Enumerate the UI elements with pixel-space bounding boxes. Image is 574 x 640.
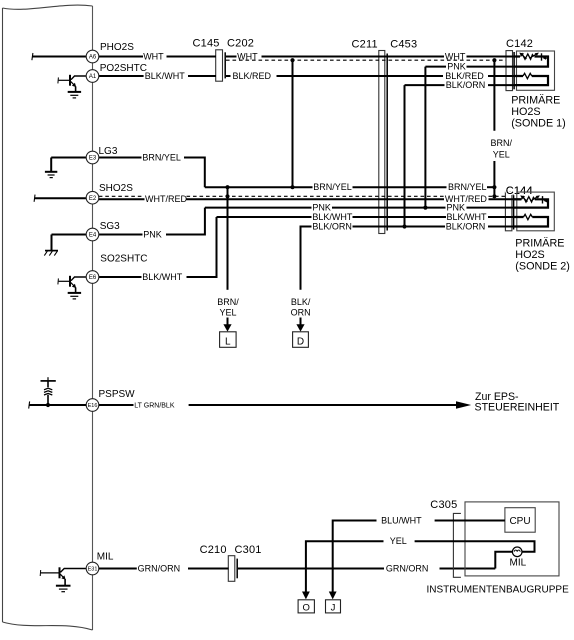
heater loop 1b (BLK/RED / BLK/ORN) — [514, 76, 548, 85]
sensing element cell bar (sonde 1) — [541, 53, 543, 60]
wire PNK from label to elbow up — [166, 208, 205, 235]
wire WHT/RED solid seg3 to sensor box 2 — [489, 198, 522, 200]
sensor box PRIMAERE HO2S (SONDE 2) outline — [517, 192, 555, 231]
wire BLK/WHT from A1 to label — [99, 75, 144, 77]
svg-text:O: O — [303, 602, 310, 613]
wire GRN/ORN after C301 to label2 — [238, 568, 384, 570]
connector C145/C202 body — [216, 50, 226, 81]
wire E2 left stub tick — [33, 195, 36, 202]
svg-text:E4: E4 — [89, 233, 97, 239]
terminal E6 (SO2SHTC) — [86, 271, 99, 284]
svg-text:A1: A1 — [89, 74, 97, 80]
svg-text:PNK: PNK — [447, 61, 466, 71]
svg-text:GRN/ORN: GRN/ORN — [386, 563, 429, 573]
svg-text:WHT/RED: WHT/RED — [145, 194, 187, 204]
svg-text:BLK/RED: BLK/RED — [233, 71, 272, 81]
svg-text:MIL: MIL — [510, 557, 527, 568]
sensing element arrow right (sonde 2) — [531, 197, 538, 201]
svg-text:PNK: PNK — [143, 229, 162, 239]
svg-text:BRN/: BRN/ — [217, 297, 239, 307]
svg-text:HO2S: HO2S — [511, 106, 540, 118]
arrowhead to J — [329, 592, 337, 600]
wire BLK/ORN top row to label — [405, 84, 445, 86]
svg-text:ORN: ORN — [291, 307, 311, 317]
svg-text:C453: C453 — [390, 39, 417, 51]
wire BLK/WHT lower row mid segment through C211 — [353, 216, 447, 218]
wire L-drain arrow shaft — [227, 318, 229, 327]
svg-text:GRN/ORN: GRN/ORN — [138, 563, 181, 573]
wire YEL label into cluster to MIL bulb — [415, 541, 535, 552]
power steering switch symbol (coil to bar) — [41, 377, 56, 405]
sensing element arrow left (sonde 2) — [523, 197, 528, 201]
node shield drain to BRN/YEL row — [290, 185, 294, 189]
wire L-drain vertical from BRN/YEL row — [227, 187, 229, 290]
node BLK/ORN vertical joins lower BLK/ORN row — [402, 224, 406, 228]
svg-text:L: L — [225, 337, 231, 348]
terminal E4 (SG3) — [86, 228, 99, 241]
wire BLK/WHT from E6 to label — [99, 276, 142, 278]
svg-text:BLU/WHT: BLU/WHT — [381, 515, 422, 525]
svg-text:YEL: YEL — [493, 150, 510, 160]
L-drain arrowhead — [223, 324, 231, 331]
svg-text:PO2SHTC: PO2SHTC — [100, 63, 147, 74]
wire WHT/RED shield dashed seg3 — [489, 195, 506, 197]
svg-text:PSPSW: PSPSW — [99, 389, 136, 400]
svg-text:BRN/: BRN/ — [491, 138, 513, 148]
arrowhead to EPS unit — [456, 401, 471, 409]
wire BLK/RED from label through C211 to label2 — [277, 75, 444, 77]
wire WHT from A6 to label — [99, 56, 143, 58]
svg-text:SHO2S: SHO2S — [99, 183, 133, 194]
wire D-drain arrow shaft — [300, 318, 302, 327]
wire BLK/WHT label to connector C145 — [188, 75, 216, 77]
wire E2 left stub — [35, 197, 87, 199]
heater resistor zigzag (sonde 1) — [523, 73, 532, 78]
terminal A1 (PO2SHTC) — [86, 70, 99, 83]
transistor Q2 (SO2SHTC driver at E6) — [58, 276, 86, 293]
connector C211/C453 body — [379, 51, 387, 234]
wire PNK lower row right segment to sensor box 2 — [467, 207, 514, 209]
instrument cluster box — [465, 502, 559, 576]
ECM left boundary line — [2, 8, 4, 622]
svg-text:E2: E2 — [89, 196, 97, 202]
svg-text:BRN/YEL: BRN/YEL — [313, 182, 352, 192]
sensing element arrow right (sonde 1) — [530, 54, 537, 58]
wire BLK/RED stub after C202 — [226, 75, 231, 77]
node shield drain junction at x494 — [492, 58, 496, 62]
ground symbol at E3 — [45, 158, 86, 178]
node box L — [220, 332, 237, 348]
wire LT GRN/BLK long run to EPS — [189, 404, 457, 406]
wire WHT/RED shield dashed seg1 — [99, 195, 144, 197]
CPU box — [505, 508, 535, 533]
arrowhead to O — [302, 592, 310, 600]
wire GRN/ORN label to connector C210 — [188, 568, 229, 570]
svg-text:C211: C211 — [352, 39, 378, 51]
node PNK vertical joins lower PNK row — [423, 206, 427, 210]
sensing element arrow left (sonde 1) — [522, 54, 527, 58]
svg-text:STEUEREINHEIT: STEUEREINHEIT — [475, 402, 560, 414]
wire WHT left stub tick at A6 — [32, 53, 33, 60]
sensor element loop 2a (WHT-RED/PNK) — [514, 199, 548, 207]
wire A6 left stub — [32, 56, 86, 58]
svg-text:J: J — [331, 602, 336, 613]
sensing element cell bar (sonde 2) — [542, 196, 544, 203]
terminal E16 (PSPSW) — [86, 399, 99, 412]
svg-text:YEL: YEL — [219, 307, 236, 317]
svg-text:BLK/ORN: BLK/ORN — [446, 221, 486, 231]
wire WHT/RED shield dashed seg2 — [187, 195, 445, 197]
svg-text:E6: E6 — [89, 275, 97, 281]
svg-text:BLK/WHT: BLK/WHT — [447, 212, 488, 222]
node box J — [326, 600, 341, 614]
svg-text:C145: C145 — [193, 37, 220, 49]
wire shield drain vertical x292 — [292, 60, 294, 187]
wire BLK/ORN lower row corner from D-drain — [301, 227, 312, 290]
heater resistor zigzag (sonde 2) — [524, 214, 533, 219]
svg-text:BLK/ORN: BLK/ORN — [312, 221, 352, 231]
wire WHT label to connector C145 — [167, 56, 217, 58]
ECM torn bottom edge — [3, 622, 93, 630]
svg-text:E3: E3 — [89, 156, 97, 162]
svg-text:D: D — [297, 337, 304, 348]
resistor zigzag sensing element (sonde 1) — [521, 54, 534, 59]
svg-text:PRIMÄRE: PRIMÄRE — [511, 95, 560, 107]
svg-text:YEL: YEL — [390, 536, 407, 546]
terminal E3 (LG3) — [86, 151, 99, 164]
wire PNK lower row left segment — [205, 207, 312, 209]
sensing element cell arrow (sonde 2) — [545, 200, 549, 202]
wire YEL corner down to O — [306, 541, 384, 592]
wire BRN/YEL from E3 to label — [99, 157, 142, 159]
wire BLK/WHT from label to elbow up — [187, 217, 217, 277]
wire BRN/YEL drain vertical lower part — [493, 161, 495, 196]
wire BLK/WHT lower row right segment to sensor box 2 — [488, 216, 524, 218]
node L-drain taps WHT/RED shield — [225, 194, 229, 198]
sensor box PRIMAERE HO2S (SONDE 1) outline — [517, 51, 555, 90]
connector C210/C301 body — [228, 556, 237, 582]
ECM right boundary line — [92, 6, 94, 630]
svg-text:C202: C202 — [227, 37, 254, 49]
wire LT GRN/BLK from E16 — [99, 404, 134, 406]
svg-text:C144: C144 — [506, 185, 533, 197]
svg-text:BRN/YEL: BRN/YEL — [448, 182, 487, 192]
wire BRN/YEL from label to elbow — [184, 158, 205, 188]
chassis ground symbol at E4 — [44, 235, 86, 256]
wire WHT/RED solid seg2 — [187, 198, 445, 200]
wire BRN/YEL row mid segment through C211 — [353, 186, 447, 188]
ground at Q2 emitter — [68, 293, 81, 299]
transistor Q1 (PO2SHTC driver at A1) — [58, 75, 86, 92]
svg-text:WHT: WHT — [143, 51, 164, 61]
wire GRN/ORN from E31 to label — [99, 568, 137, 570]
svg-text:BLK/WHT: BLK/WHT — [312, 212, 353, 222]
wire E16 left stub — [29, 404, 86, 406]
svg-text:C142: C142 — [506, 38, 533, 50]
wire BRN/YEL row right stub to drain junction — [487, 186, 494, 188]
svg-text:HO2S: HO2S — [515, 249, 544, 261]
node shield drain junction at x292 — [290, 58, 294, 62]
wire BRN/YEL row left segment — [205, 186, 313, 188]
wire BLK/ORN lower row mid segment through C211 — [353, 226, 446, 228]
svg-text:(SONDE 1): (SONDE 1) — [511, 118, 566, 130]
connector C144 body — [505, 192, 513, 231]
wire BLK/RED from label2 to sensor box 1 — [488, 75, 523, 77]
svg-text:LG3: LG3 — [99, 146, 118, 157]
svg-text:A6: A6 — [89, 55, 97, 61]
wire BRN/YEL drain vertical upper part — [493, 60, 495, 131]
wire PNK top elbow vertical x425 — [424, 67, 426, 208]
svg-text:CPU: CPU — [509, 516, 530, 527]
svg-text:BLK/WHT: BLK/WHT — [145, 71, 186, 81]
connector C305 bracket — [453, 513, 461, 577]
svg-text:BLK/ORN: BLK/ORN — [446, 80, 486, 90]
node BRN/YEL drain to BRN/YEL row — [492, 185, 496, 189]
heater loop 2b (BLK/WHT / BLK/ORN) — [514, 217, 548, 227]
wire BLU/WHT corner down to J — [333, 521, 377, 592]
sensor element loop 1a (WHT/PNK) — [514, 57, 548, 67]
svg-text:BRN/YEL: BRN/YEL — [142, 152, 181, 162]
svg-text:SG3: SG3 — [100, 221, 120, 232]
wire WHT shield (dashed) — [226, 59, 506, 61]
wire BLU/WHT label to CPU — [435, 520, 505, 522]
wire WHT stub after C202 — [226, 56, 237, 58]
sensing element cell arrow (sonde 1) — [544, 57, 548, 59]
wire PNK top row to label — [425, 66, 446, 68]
wire WHT from label through C211 to label2 — [262, 56, 445, 58]
ground at Q1 emitter — [68, 92, 81, 98]
wire BLK/ORN lower row right segment to sensor box 2 — [488, 226, 514, 228]
wire BLK/ORN top row label to connector C142 — [488, 84, 514, 86]
wire WHT/RED solid seg1 — [99, 198, 145, 200]
node box D — [293, 332, 309, 348]
svg-text:BLK/: BLK/ — [291, 297, 311, 307]
wire E16 left stub tick — [28, 401, 31, 408]
svg-text:BLK/WHT: BLK/WHT — [142, 272, 183, 282]
svg-text:E16: E16 — [88, 403, 98, 409]
node switch taps PSPSW wire — [46, 403, 50, 407]
wire BLK/WHT lower row left segment — [217, 216, 312, 218]
wire GRN/ORN inside cluster up to MIL bulb — [495, 552, 512, 569]
wire BLK/ORN top elbow vertical x404 — [404, 85, 406, 226]
svg-text:(SONDE 2): (SONDE 2) — [515, 261, 570, 273]
svg-text:C301: C301 — [235, 544, 262, 556]
wire WHT from label2 to sensor box 1 — [467, 56, 521, 58]
svg-text:LT GRN/BLK: LT GRN/BLK — [134, 402, 175, 409]
terminal E31 (MIL) — [86, 562, 99, 575]
node box O — [298, 600, 314, 614]
wire GRN/ORN label2 into cluster — [440, 568, 496, 570]
svg-text:MIL: MIL — [97, 551, 114, 562]
ground at Q3 emitter — [56, 586, 71, 592]
svg-text:SO2SHTC: SO2SHTC — [100, 254, 147, 265]
D-drain arrowhead — [296, 324, 304, 331]
indicator lamp MIL — [512, 547, 522, 557]
svg-text:INSTRUMENTENBAUGRUPPE: INSTRUMENTENBAUGRUPPE — [427, 584, 570, 595]
resistor zigzag sensing element (sonde 2) — [522, 197, 535, 202]
svg-text:C305: C305 — [430, 499, 457, 511]
terminal E2 (SHO2S) — [86, 191, 99, 204]
wire PNK top row label to connector C142 — [467, 66, 515, 68]
svg-text:E31: E31 — [88, 567, 98, 573]
svg-text:PHO2S: PHO2S — [100, 42, 134, 53]
terminal A6 (PHO2S) — [86, 50, 99, 63]
wire PNK from E4 to label — [99, 234, 143, 236]
ECM torn top edge — [3, 5, 93, 9]
transistor Q3 (MIL driver at E31) — [40, 567, 86, 585]
node BRN/YEL drain to WHT/RED shield — [492, 194, 496, 198]
connector C142 body — [506, 51, 514, 91]
svg-text:C210: C210 — [200, 544, 227, 556]
wire PNK lower row mid segment through C211 — [332, 207, 446, 209]
svg-text:PRIMÄRE: PRIMÄRE — [515, 238, 564, 250]
node L-drain taps BRN/YEL row — [225, 185, 229, 189]
